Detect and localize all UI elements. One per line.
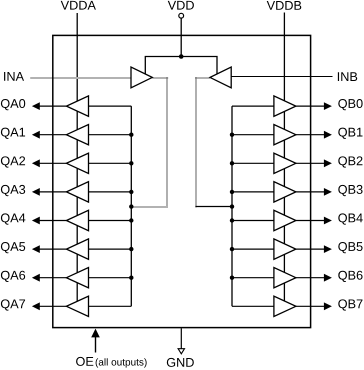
- wire QB1 output: [296, 134, 324, 136]
- node left bus junction row 4: [129, 218, 133, 222]
- wire INB buffer output stub (gray): [195, 77, 210, 79]
- label QA2: [1, 156, 25, 167]
- node left bus junction row 5: [129, 247, 133, 251]
- wire QB2 output: [296, 162, 324, 164]
- wire QA6 output: [40, 277, 67, 279]
- label QA6: [1, 271, 25, 282]
- wire INB output drop (gray): [195, 77, 197, 208]
- output buffer QB2: [274, 153, 296, 173]
- IC outline box: [53, 35, 311, 327]
- output buffer QB6: [274, 268, 296, 288]
- wire INA input (gray): [30, 77, 131, 79]
- label INB: [338, 72, 357, 81]
- node right bus junction row 6: [230, 276, 234, 280]
- input buffer U1 INA: [131, 67, 152, 88]
- wire VDDA rail: [76, 13, 78, 306]
- wire QB4 output: [296, 220, 324, 222]
- label QB1: [338, 128, 362, 139]
- wire INA join to left bus (gray): [131, 206, 168, 208]
- output buffer QA3: [66, 182, 88, 202]
- wire left bus stub row 5: [89, 248, 132, 250]
- node left bus INA join: [129, 204, 133, 208]
- node right bus junction row 3: [230, 190, 234, 194]
- wire QB5 output: [296, 248, 324, 250]
- wire QA1 output: [40, 134, 67, 136]
- wire right bus stub row 4: [232, 220, 274, 222]
- output buffer QB3: [274, 182, 296, 202]
- output buffer QB1: [274, 125, 296, 145]
- wire QA0 output: [40, 105, 67, 107]
- wire left bus stub row 1: [89, 134, 132, 136]
- label QA3: [1, 185, 25, 196]
- label QB4: [338, 213, 362, 224]
- output buffer QA2: [66, 153, 88, 173]
- wire QB3 output: [296, 191, 324, 193]
- node right bus junction row 1: [230, 133, 234, 137]
- label VDDB: [267, 1, 302, 10]
- node left bus junction row 2: [129, 161, 133, 165]
- output buffer QA5: [66, 239, 88, 259]
- wire right bus stub row 7: [232, 305, 274, 307]
- label QB5: [338, 242, 362, 253]
- wire left bus stub row 3: [89, 191, 132, 193]
- output buffer QA4: [66, 210, 88, 230]
- node left bus junction row 6: [129, 276, 133, 280]
- wire QB6 output: [296, 277, 324, 279]
- wire right bus stub row 6: [232, 277, 274, 279]
- node right bus junction row 4: [230, 218, 234, 222]
- label QA7: [1, 299, 25, 310]
- wire right bus stub row 0: [232, 105, 274, 107]
- label GND: [167, 358, 194, 367]
- output buffer QA1: [66, 125, 88, 145]
- wire INB input: [231, 76, 332, 78]
- pin GND arrow: [180, 328, 182, 349]
- pin OE arrow: [95, 336, 97, 353]
- wire left bus stub row 6: [89, 277, 132, 279]
- wire right bus stub row 1: [232, 134, 274, 136]
- node right bus junction row 2: [230, 161, 234, 165]
- wire left bus stub row 0: [89, 105, 132, 107]
- wire left bus stub row 4: [89, 220, 132, 222]
- wire VDD stem: [180, 18, 182, 56]
- wire right bus stub row 3: [232, 191, 274, 193]
- label QB0: [338, 99, 362, 110]
- node left bus junction row 3: [129, 190, 133, 194]
- wire INB join to right bus: [195, 206, 232, 208]
- wire left bus stub row 2: [89, 162, 132, 164]
- wire QB0 output: [296, 105, 324, 107]
- label VDD: [168, 1, 194, 10]
- wire left distribution bus: [130, 106, 132, 306]
- label QA1: [1, 128, 25, 139]
- label QA4: [1, 213, 25, 224]
- label QA5: [1, 242, 25, 253]
- wire QA5 output: [40, 248, 67, 250]
- output buffer QA7: [66, 296, 88, 316]
- wire QA3 output: [40, 191, 67, 193]
- wire QA2 output: [40, 162, 67, 164]
- wire left bus stub row 7: [89, 305, 132, 307]
- output buffer QB5: [274, 239, 296, 259]
- wire right distribution bus: [231, 106, 233, 306]
- label INA: [4, 72, 24, 81]
- output buffer QB0: [274, 96, 296, 116]
- wire right bus stub row 2: [232, 162, 274, 164]
- output buffer QB4: [274, 210, 296, 230]
- node VDD junction: [179, 54, 184, 59]
- wire INA buffer output stub (gray): [152, 77, 168, 79]
- output buffer QA6: [66, 268, 88, 288]
- wire right bus stub row 5: [232, 248, 274, 250]
- label QB7: [338, 299, 362, 310]
- output buffer QB7: [274, 296, 296, 316]
- node right bus INB join: [230, 204, 234, 208]
- label OE: [76, 357, 93, 366]
- wire QA7 output: [40, 305, 67, 307]
- wire INA output drop (gray): [166, 77, 168, 208]
- label QB3: [338, 185, 362, 196]
- wire VDD tee: [145, 57, 217, 75]
- label OE note: [96, 358, 147, 367]
- label VDDA: [61, 1, 96, 10]
- wire QB7 output: [296, 305, 324, 307]
- label QA0: [1, 99, 25, 110]
- node right bus junction row 5: [230, 247, 234, 251]
- node left bus junction row 1: [129, 133, 133, 137]
- label QB6: [338, 271, 362, 282]
- input buffer U2 INB: [210, 67, 231, 88]
- pin VDD circle: [179, 13, 184, 18]
- output buffer QA0: [66, 96, 88, 116]
- wire VDDB rail: [283, 13, 285, 307]
- wire QA4 output: [40, 220, 67, 222]
- label QB2: [338, 156, 362, 167]
